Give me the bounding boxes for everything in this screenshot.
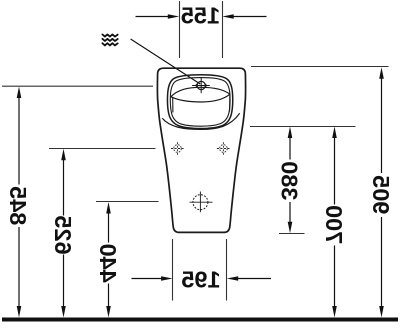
extension line 845 (spray nozzle height)	[2, 85, 153, 87]
dimension 845 line	[18, 96, 20, 185]
svg-text:700: 700	[321, 205, 347, 244]
svg-text:195: 195	[181, 267, 220, 293]
svg-text:380: 380	[277, 161, 303, 200]
dimension 905 line	[381, 77, 383, 173]
extension line 440 (outlet height)	[96, 201, 159, 203]
extension line 380 bottom	[279, 233, 305, 235]
basin front lip (lens bottom)	[171, 94, 230, 102]
water supply wave symbol	[102, 34, 117, 45]
extension line 625 (mounting holes height)	[49, 148, 156, 150]
bowl outer rim	[167, 75, 232, 129]
extension line top-155 left	[179, 1, 181, 58]
body crease below bowl	[162, 113, 239, 129]
leader line to spray nozzle	[131, 39, 201, 84]
extension line 905 (top of urinal)	[251, 66, 389, 68]
spray nozzle	[192, 77, 210, 93]
extension line 195 right	[226, 239, 228, 301]
floor line	[2, 318, 398, 322]
dimension 625 line	[63, 158, 65, 216]
extension line 700/380 top (bowl bottom)	[250, 126, 356, 128]
dimension 700 line	[334, 136, 336, 205]
basin opening back edge (lens top)	[171, 87, 230, 96]
mounting hole left	[171, 142, 184, 155]
svg-text:155: 155	[181, 3, 220, 29]
svg-text:440: 440	[95, 243, 121, 282]
svg-text:905: 905	[368, 175, 394, 214]
svg-text:625: 625	[50, 215, 76, 254]
basin right wall	[229, 95, 231, 111]
urinal body outline	[157, 68, 245, 232]
outlet	[190, 192, 213, 213]
extension line 195 left	[172, 239, 174, 301]
svg-text:845: 845	[5, 186, 31, 225]
extension line top-155 right	[222, 1, 224, 58]
mounting hole right	[217, 142, 230, 155]
bowl inner rim	[170, 78, 230, 127]
dimension 155 left arrow	[136, 16, 170, 18]
basin left wall	[172, 98, 174, 113]
dimension 195 right arrow	[237, 278, 271, 280]
dimension 440 line	[108, 212, 110, 243]
dimension 195 left arrow	[132, 278, 163, 280]
dimension 155 right arrow	[233, 16, 267, 18]
dimension 380 line	[289, 136, 291, 160]
